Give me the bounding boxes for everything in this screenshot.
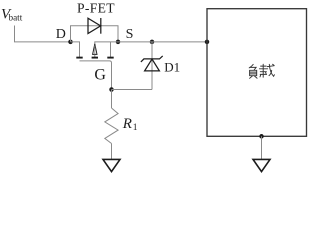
node S-rail to D1 junction dot xyxy=(150,40,155,45)
diode D1 triangle xyxy=(145,59,160,71)
transistor body arrow inner shaft xyxy=(94,46,96,55)
body diode cathode bar xyxy=(100,18,102,34)
transistor body shaft and wire to S xyxy=(95,42,118,57)
transistor source channel tick xyxy=(107,57,113,59)
wire body-diode loop D to S xyxy=(71,26,119,42)
node D junction dot xyxy=(68,40,73,45)
wire load box to ground xyxy=(261,136,263,159)
node gate junction dot xyxy=(109,87,114,92)
glyph ZAI xyxy=(259,64,267,69)
load label (drawn glyphs for 负载) xyxy=(249,64,274,78)
node S junction dot xyxy=(116,40,121,45)
svg-text:R: R xyxy=(122,116,132,132)
node load junction dot xyxy=(205,40,210,45)
transistor P-FET drain wire and stub xyxy=(71,42,80,57)
wire rail S to load box xyxy=(118,41,207,43)
svg-text:P-FET: P-FET xyxy=(77,0,115,15)
svg-text:G: G xyxy=(94,67,106,84)
resistor R1 zigzag xyxy=(105,108,118,144)
wire gate row to D1 anode xyxy=(112,89,153,91)
load box xyxy=(207,9,307,137)
svg-text:1: 1 xyxy=(133,123,138,133)
transistor source stub xyxy=(110,42,112,57)
wire gate node down to R1 xyxy=(111,90,113,109)
wire Vbatt to node D xyxy=(15,26,71,42)
transistor body arrow (open, pointing up) xyxy=(93,44,97,55)
node load-ground junction dot xyxy=(259,134,264,139)
transistor drain channel tick xyxy=(76,57,82,59)
wire R1 to ground xyxy=(111,144,113,160)
ground (load) xyxy=(253,159,270,171)
transistor body channel tick xyxy=(92,57,98,59)
svg-text:D1: D1 xyxy=(164,60,180,75)
ground (R1) xyxy=(103,159,120,171)
svg-text:S: S xyxy=(126,27,134,42)
body diode of P-FET (triangle) xyxy=(88,18,101,33)
svg-text:batt: batt xyxy=(9,13,23,23)
wire D1 vertical branch xyxy=(151,42,153,90)
transistor gate plate and gate wire down xyxy=(80,61,112,90)
glyph FU xyxy=(249,64,253,68)
diode D1 zener cathode bar with bent tails xyxy=(141,56,163,62)
svg-text:D: D xyxy=(56,27,66,42)
